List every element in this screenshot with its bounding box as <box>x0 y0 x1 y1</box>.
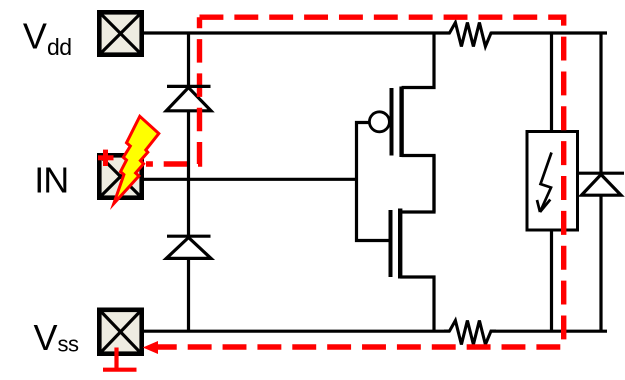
pad Vss <box>99 310 141 354</box>
svg-text:dd: dd <box>47 34 71 60</box>
svg-text:V: V <box>23 15 47 56</box>
lightning bolt ESD strike <box>114 116 159 203</box>
clamp U1 (ESD power clamp) <box>527 132 578 231</box>
pad IN <box>99 155 141 197</box>
diode D1 triangle (under ESD path) <box>166 88 211 111</box>
wire diode branch <box>599 33 602 173</box>
resistor R1 (Vdd bus) <box>444 23 496 47</box>
ground symbol (red) <box>103 348 137 370</box>
ESD path red dashed left vertical (over D1 triangle, under D1 bar) <box>146 17 200 164</box>
wire IN <box>144 178 357 181</box>
resistor R2 (Vss bus) <box>444 321 496 345</box>
ESD current path red dashed loop <box>157 17 564 347</box>
wire Vss rail <box>143 330 450 333</box>
wire Vdd rail <box>144 31 450 34</box>
transistor M2 NMOS <box>391 155 435 331</box>
wire gate stem <box>357 123 389 241</box>
pad Vdd <box>99 12 141 54</box>
wire diode chain vertical <box>187 33 190 86</box>
transistor M1 PMOS <box>369 33 434 212</box>
svg-text:V: V <box>34 317 58 358</box>
diode D3 (Vss to Vdd) <box>579 173 624 195</box>
arrowhead into Vss pad <box>143 341 158 354</box>
svg-text:ss: ss <box>58 331 80 356</box>
clamp U1 current arrow <box>537 153 552 213</box>
diode D1 cathode bar <box>167 85 211 88</box>
diode D2 (Vss to IN) <box>166 236 211 258</box>
wire clamp branch <box>550 33 553 132</box>
ESD plus sign <box>98 150 114 166</box>
svg-text:IN: IN <box>34 160 68 201</box>
